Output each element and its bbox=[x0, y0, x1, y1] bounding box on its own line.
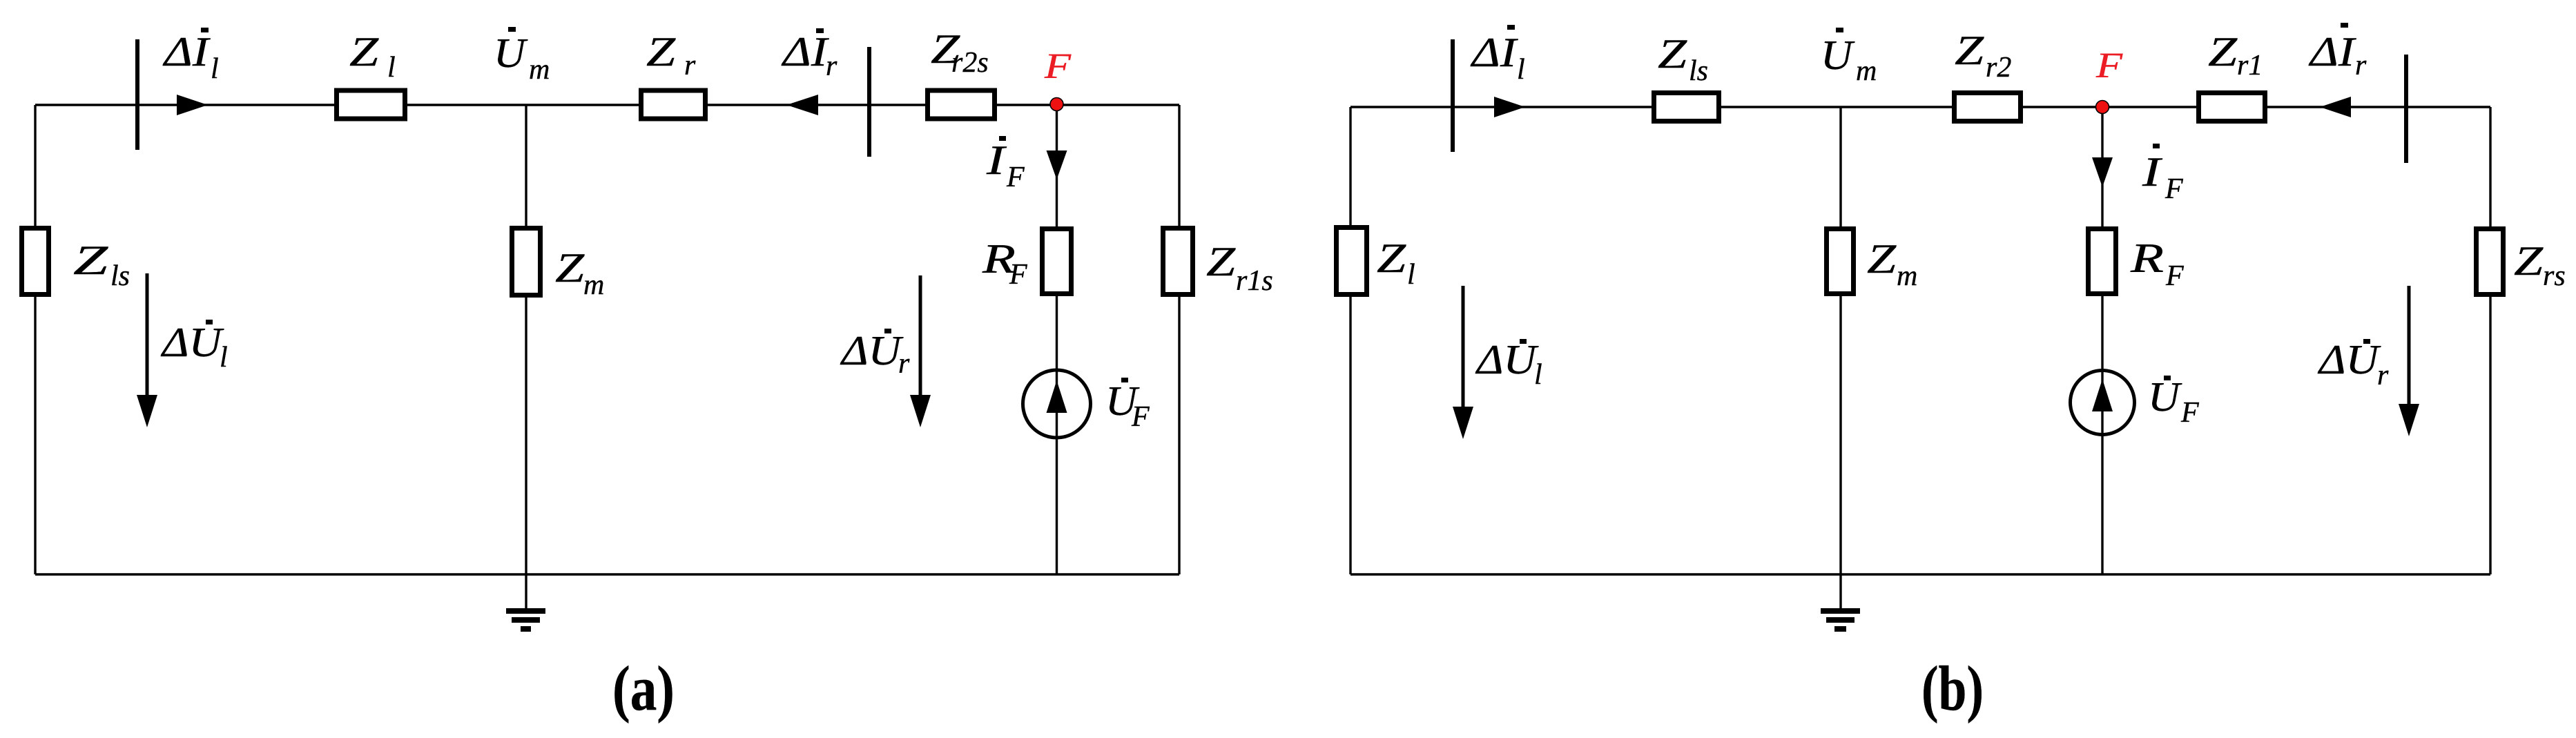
svg-text:r: r bbox=[826, 50, 837, 82]
wire: circuit (a) right source branch bbox=[1178, 105, 1180, 574]
svg-text:F: F bbox=[1009, 259, 1027, 291]
node F (a) red fault dot bbox=[1050, 98, 1063, 111]
arrow: ΔIr current direction (a) bbox=[786, 95, 818, 115]
resistor Zm (b) bbox=[1827, 229, 1854, 294]
resistor Zls (b) bbox=[1654, 93, 1719, 122]
svg-text:r2s: r2s bbox=[951, 47, 989, 79]
svg-text:ls: ls bbox=[110, 260, 130, 292]
svg-text:ls: ls bbox=[1689, 55, 1708, 87]
svg-text:F: F bbox=[1006, 162, 1025, 193]
svg-text:F: F bbox=[1131, 401, 1150, 433]
arrow: UF source polarity (b) bbox=[2092, 379, 2113, 411]
ground (b) bbox=[1839, 574, 1841, 609]
node F (b) red fault dot bbox=[2096, 101, 2109, 114]
svg-text:U: U bbox=[494, 30, 528, 76]
source UF circle (a) bbox=[1023, 370, 1091, 438]
svg-text:ΔI: ΔI bbox=[782, 29, 830, 75]
resistor Zl (a) bbox=[337, 90, 405, 119]
resistor RF (b) bbox=[2089, 229, 2116, 294]
svg-text:Z: Z bbox=[2514, 238, 2544, 284]
svg-text:ΔU: ΔU bbox=[2318, 337, 2381, 382]
resistor Zr2 (b) bbox=[1955, 93, 2021, 122]
svg-text:m: m bbox=[529, 54, 550, 86]
svg-text:m: m bbox=[1856, 55, 1877, 87]
svg-text:r: r bbox=[684, 50, 696, 81]
svg-text:l: l bbox=[1517, 54, 1525, 86]
svg-text:l: l bbox=[220, 342, 228, 373]
resistor Zls (a) bbox=[22, 229, 49, 295]
resistor Zm (a) bbox=[512, 229, 541, 295]
svg-text:Z: Z bbox=[2208, 29, 2238, 75]
resistor Zl (b) bbox=[1337, 228, 1367, 295]
svg-text:l: l bbox=[211, 53, 219, 85]
resistor Zr1 (b) bbox=[2199, 93, 2265, 122]
svg-text:m: m bbox=[583, 269, 604, 301]
svg-text:l: l bbox=[1407, 259, 1415, 291]
wire: circuit (a) left source branch bbox=[34, 105, 36, 574]
svg-text:I: I bbox=[986, 137, 1007, 183]
svg-text:Z: Z bbox=[1206, 239, 1236, 284]
wire: circuit (b) right source branch bbox=[2489, 107, 2491, 574]
svg-text:F: F bbox=[2165, 260, 2184, 292]
wire: circuit (a) fault branch at node F bbox=[1056, 105, 1058, 574]
svg-text:l: l bbox=[387, 52, 396, 84]
wire: circuit (a) bottom return bus bbox=[35, 573, 1179, 575]
arrow: ΔIl current direction (a) bbox=[177, 95, 208, 115]
svg-text:r1: r1 bbox=[2237, 50, 2263, 81]
svg-text:Z: Z bbox=[646, 29, 676, 75]
svg-text:ΔU: ΔU bbox=[840, 328, 904, 373]
svg-text:rs: rs bbox=[2543, 260, 2566, 292]
svg-text:m: m bbox=[1897, 260, 1917, 292]
svg-text:(b): (b) bbox=[1921, 653, 1984, 724]
svg-text:r1s: r1s bbox=[1236, 265, 1273, 297]
arrow: ΔUl voltage arrow (a) bbox=[146, 273, 149, 400]
svg-text:U: U bbox=[2148, 374, 2182, 420]
bus bar left (b) bbox=[1451, 39, 1455, 152]
svg-text:r: r bbox=[2377, 360, 2389, 391]
arrow: IF fault current (a) bbox=[1047, 150, 1067, 179]
svg-text:I: I bbox=[2142, 149, 2163, 195]
arrow: ΔUr voltage arrow (a) bbox=[919, 275, 922, 400]
bus bar left (a) bbox=[135, 39, 139, 150]
svg-text:r: r bbox=[898, 348, 910, 380]
svg-text:Z: Z bbox=[555, 245, 585, 291]
svg-text:U: U bbox=[1821, 32, 1855, 78]
resistor Zrs (b) bbox=[2477, 229, 2504, 295]
svg-text:ΔI: ΔI bbox=[163, 29, 211, 75]
resistor Zr1s (a) bbox=[1163, 229, 1193, 295]
svg-text:Z: Z bbox=[1658, 31, 1687, 77]
svg-text:F: F bbox=[2165, 173, 2183, 205]
svg-text:ΔI: ΔI bbox=[2309, 29, 2357, 75]
resistor Zr2s (a) bbox=[928, 90, 995, 119]
arrow: ΔIl current direction (b) bbox=[1494, 97, 1525, 117]
wire: circuit (b) bottom return bus bbox=[1350, 573, 2490, 575]
svg-text:ΔU: ΔU bbox=[161, 320, 224, 365]
arrow: ΔUl voltage arrow (b) bbox=[1462, 286, 1465, 412]
svg-text:Z: Z bbox=[1955, 28, 1984, 73]
arrow: UF source polarity (a) bbox=[1047, 380, 1067, 413]
wire: circuit (a) node Um shunt branch bbox=[525, 105, 527, 574]
svg-text:l: l bbox=[1534, 359, 1542, 391]
svg-text:Z: Z bbox=[1377, 235, 1406, 281]
wire: circuit (b) node Um shunt branch bbox=[1839, 107, 1841, 574]
svg-text:R: R bbox=[2130, 235, 2164, 281]
svg-text:r: r bbox=[2355, 50, 2367, 81]
wire: circuit (a) top bus bbox=[35, 104, 1179, 106]
svg-text:F: F bbox=[2180, 397, 2199, 429]
svg-text:Z: Z bbox=[73, 237, 108, 283]
svg-text:(a): (a) bbox=[612, 653, 675, 724]
svg-text:Z: Z bbox=[1867, 236, 1897, 282]
source UF circle (b) bbox=[2071, 371, 2135, 435]
bus bar right (a) bbox=[867, 47, 871, 157]
svg-text:F: F bbox=[2095, 46, 2124, 86]
svg-text:ΔI: ΔI bbox=[1471, 30, 1519, 75]
bus bar right (b) bbox=[2404, 55, 2408, 163]
svg-text:ΔU: ΔU bbox=[1475, 337, 1539, 382]
svg-text:F: F bbox=[1044, 47, 1072, 86]
arrow: ΔUr voltage arrow (b) bbox=[2408, 286, 2411, 409]
svg-text:r2: r2 bbox=[1986, 52, 2011, 84]
ground (a) bbox=[525, 574, 527, 609]
resistor RF (a) bbox=[1043, 229, 1072, 294]
resistor Zr (a) bbox=[641, 90, 706, 119]
wire: circuit (b) fault branch at node F bbox=[2101, 107, 2103, 574]
wire: circuit (b) top bus bbox=[1350, 106, 2490, 108]
wire: circuit (b) left source branch bbox=[1349, 107, 1351, 574]
arrow: IF fault current (b) bbox=[2092, 157, 2113, 187]
arrow: ΔIr current direction (b) bbox=[2320, 97, 2351, 117]
svg-text:Z: Z bbox=[349, 29, 379, 75]
